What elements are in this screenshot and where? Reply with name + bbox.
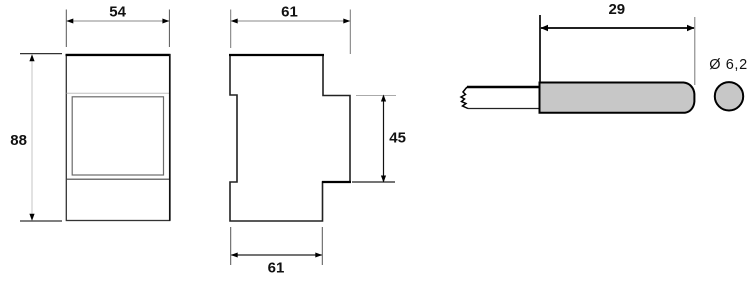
svg-text:29: 29 bbox=[608, 1, 625, 18]
svg-text:45: 45 bbox=[389, 129, 406, 146]
svg-text:61: 61 bbox=[281, 3, 298, 20]
svg-text:Ø 6,2: Ø 6,2 bbox=[709, 57, 747, 73]
svg-text:88: 88 bbox=[10, 132, 27, 149]
svg-text:61: 61 bbox=[268, 260, 285, 277]
svg-text:54: 54 bbox=[109, 3, 126, 20]
